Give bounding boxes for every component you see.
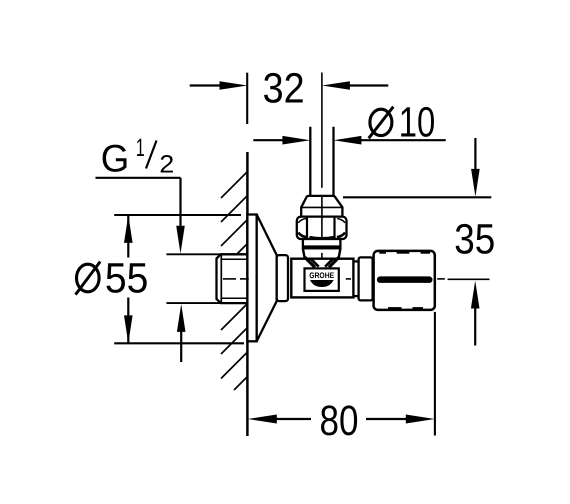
- neck ring: [277, 255, 288, 301]
- knob: [374, 251, 435, 310]
- horizontal centerline of valve axis: [223, 278, 490, 280]
- escutcheon flange plate at wall: [247, 215, 256, 342]
- funnel boss into body: [303, 249, 341, 268]
- dimension Ø10: [253, 100, 445, 147]
- step ring below nut: [303, 239, 341, 248]
- handle collar ring: [359, 257, 373, 300]
- svg-text:55: 55: [105, 255, 148, 302]
- dimension 80: [248, 312, 435, 445]
- wall line: [246, 152, 249, 436]
- dimension 35: [343, 138, 495, 346]
- svg-text:G: G: [101, 138, 130, 181]
- svg-text:2: 2: [159, 150, 174, 178]
- compression hex nut: [297, 217, 347, 239]
- svg-text:32: 32: [263, 65, 305, 112]
- dimension Ø55: [76, 215, 245, 343]
- svg-text:35: 35: [454, 217, 495, 264]
- wall hatching bottom: [221, 304, 247, 390]
- valve body barrel: [291, 259, 353, 298]
- wall hatching top: [221, 172, 247, 254]
- dimension 32: [190, 65, 389, 124]
- svg-text:80: 80: [320, 398, 359, 445]
- knob grip bar: [377, 276, 433, 283]
- escutcheon cone: [257, 215, 277, 342]
- svg-text:1: 1: [136, 134, 145, 162]
- male thread G1/2: [217, 254, 248, 303]
- inlet pipe 10mm: [310, 127, 333, 197]
- GROHE logo box: [305, 268, 339, 291]
- thread top/bottom edge lines extended for G1/2 callout: [166, 254, 247, 303]
- small ferrule nut: [301, 196, 342, 217]
- handle stem: [353, 261, 359, 296]
- svg-text:10: 10: [399, 100, 436, 147]
- G 1/2 thread callout: [96, 134, 186, 362]
- svg-text:GROHE: GROHE: [309, 271, 335, 280]
- vertical centerline of pipe: [321, 73, 323, 259]
